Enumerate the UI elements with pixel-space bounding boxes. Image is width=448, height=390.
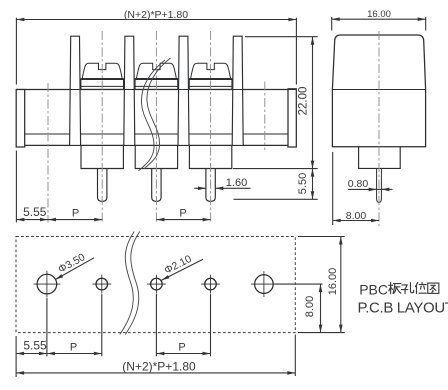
pedestal 3 [189,145,231,168]
svg-text:P: P [179,208,186,220]
right end cap [288,89,296,147]
dimension P (first pitch) [48,208,102,222]
pedestal 1 [81,145,123,168]
svg-text:5.50: 5.50 [297,173,309,194]
dimension 16.00 (side view width) [332,9,426,31]
barrier wall 2 [124,36,135,145]
centerline pin 3 [210,31,212,223]
svg-text:(N+2)*P+1.80: (N+2)*P+1.80 [124,9,188,21]
svg-text:5.55: 5.55 [23,205,47,219]
PCB outline (dashed) [16,237,295,333]
extension line hole 2 [101,294,103,356]
screw terminal unit 2 (head + clamp) [135,63,178,89]
break line squiggle 2 (PCB view) [125,232,139,335]
hole 5 [251,271,277,297]
dimension 1.60 (pin width) [194,177,250,190]
side view pedestal [359,147,401,169]
side view body [332,35,425,147]
break line squiggle (PCB view) [120,232,134,335]
svg-text:P: P [72,208,79,220]
svg-text:P: P [178,341,185,353]
screw terminal unit 1 (head + clamp) [81,63,124,89]
dimension 5.50 (pin length) [234,169,318,200]
barrier wall 1 [70,36,81,145]
svg-text:8.00: 8.00 [304,296,316,317]
side view centerline [378,31,380,226]
dimension P (PCB first pitch) [47,341,102,355]
svg-text:16.00: 16.00 [367,9,391,20]
left end cap [16,90,25,148]
dimension 8.00 (PCB, hole to edge) [274,284,323,333]
svg-text:16.00: 16.00 [327,268,339,296]
pedestal 2 [135,145,177,168]
svg-text:5.55: 5.55 [23,339,47,353]
centerline pin 1 [101,31,103,223]
centerline (first position, no pin) [47,83,49,223]
svg-text:PBC: PBC [359,281,388,297]
body mid feature line [25,133,288,135]
svg-text:(N+2)*P+1.80: (N+2)*P+1.80 [122,359,196,373]
terminal block body (front view) [16,90,296,146]
screw terminal unit 3 (head + clamp) [189,63,232,89]
break line squiggle (front view) [139,60,166,171]
barrier wall 3 [178,36,189,145]
leader Φ3.50 (big hole) [54,251,94,281]
svg-text:0.80: 0.80 [348,178,369,190]
dimension P (PCB second pitch) [156,341,210,355]
dimension 16.00 (PCB width) [298,237,345,333]
hole 3 [147,275,166,294]
pin 3 [206,169,215,202]
hole 2 [92,275,111,294]
leader Φ2.10 (small hole) [161,253,203,282]
dimension P (second pitch) [156,208,210,222]
extension line hole 1 [46,298,48,356]
pin 2 [152,169,161,202]
dimension 8.00 (side view pin offset) [333,152,379,225]
extension line hole 4 [210,294,212,356]
hole 1 [34,271,61,298]
extension line hole 3 [155,294,157,356]
dimension 22.00 (front view height) [233,37,318,169]
svg-text:8.00: 8.00 [346,210,367,222]
svg-text:P: P [70,341,77,353]
caption line 1: PBC board hole map (CJK) [359,281,439,297]
dimension (N+2)*P+1.80 (PCB bottom) [16,335,295,377]
dimension 5.55 (PCB) [16,336,47,377]
body top line (continuous) [16,89,296,91]
break line squiggle 2 (front view) [144,58,171,169]
svg-text:1.60: 1.60 [226,177,247,189]
barrier wall 4 [232,36,243,145]
svg-text:P.C.B LAYOUT: P.C.B LAYOUT [358,299,448,316]
side view waist line [332,89,425,91]
dimension 5.55 (front view bottom) [16,151,48,223]
centerline (last position, right section) [264,82,266,151]
pin 1 [98,169,107,202]
side view pin [377,168,382,202]
svg-text:22.00: 22.00 [298,87,310,116]
top dimension (N+2)*P+1.80 of front view [16,9,296,84]
centerline pin 2 [155,31,157,223]
dimension 0.80 (pin thickness) [348,178,393,191]
hole 4 [201,275,220,294]
